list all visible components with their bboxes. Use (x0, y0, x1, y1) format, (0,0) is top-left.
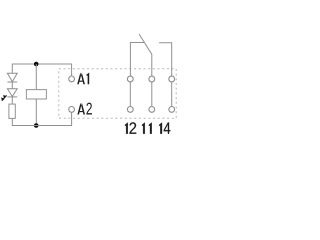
terminal 12 lower (127, 107, 133, 113)
wire: coil branch lower (35, 99, 37, 126)
wire: 11 riser (151, 82, 153, 107)
terminal A2 (69, 107, 75, 113)
wire: 12 riser (129, 82, 131, 107)
wire: D1 to LED (11, 82, 13, 89)
terminal 11 lower (149, 107, 155, 113)
label A1 (77, 72, 89, 84)
label 14 (159, 123, 170, 134)
terminal 11 upper (149, 76, 155, 82)
wire: bottom bus (12, 112, 71, 125)
wire: contact 12 lead (130, 43, 144, 77)
coil K1 (26, 90, 46, 99)
LED emission arrows (2, 95, 7, 100)
switch arm (pole 11) (139, 34, 152, 76)
node: bottom junction (34, 123, 39, 128)
terminal 12 upper (127, 76, 133, 82)
resistor R1 (9, 104, 15, 118)
label 11 (142, 123, 152, 134)
terminal 14 upper (169, 76, 175, 82)
terminal 14 lower (169, 107, 175, 113)
label A2 (77, 103, 92, 115)
LED D2 (7, 89, 17, 97)
label 12 (125, 122, 136, 133)
relay enclosure dashed outline (59, 69, 176, 118)
wire: coil branch upper (35, 64, 37, 90)
wire: contact 14 lead (159, 43, 172, 76)
wire: coil top bus (left vertical riser to A1 drop) (12, 64, 71, 76)
node: top junction (34, 62, 39, 67)
diode D1 (7, 73, 17, 82)
wire: LED to resistor (11, 97, 13, 104)
wire: 14 riser (171, 82, 173, 107)
terminal A1 (69, 76, 75, 82)
